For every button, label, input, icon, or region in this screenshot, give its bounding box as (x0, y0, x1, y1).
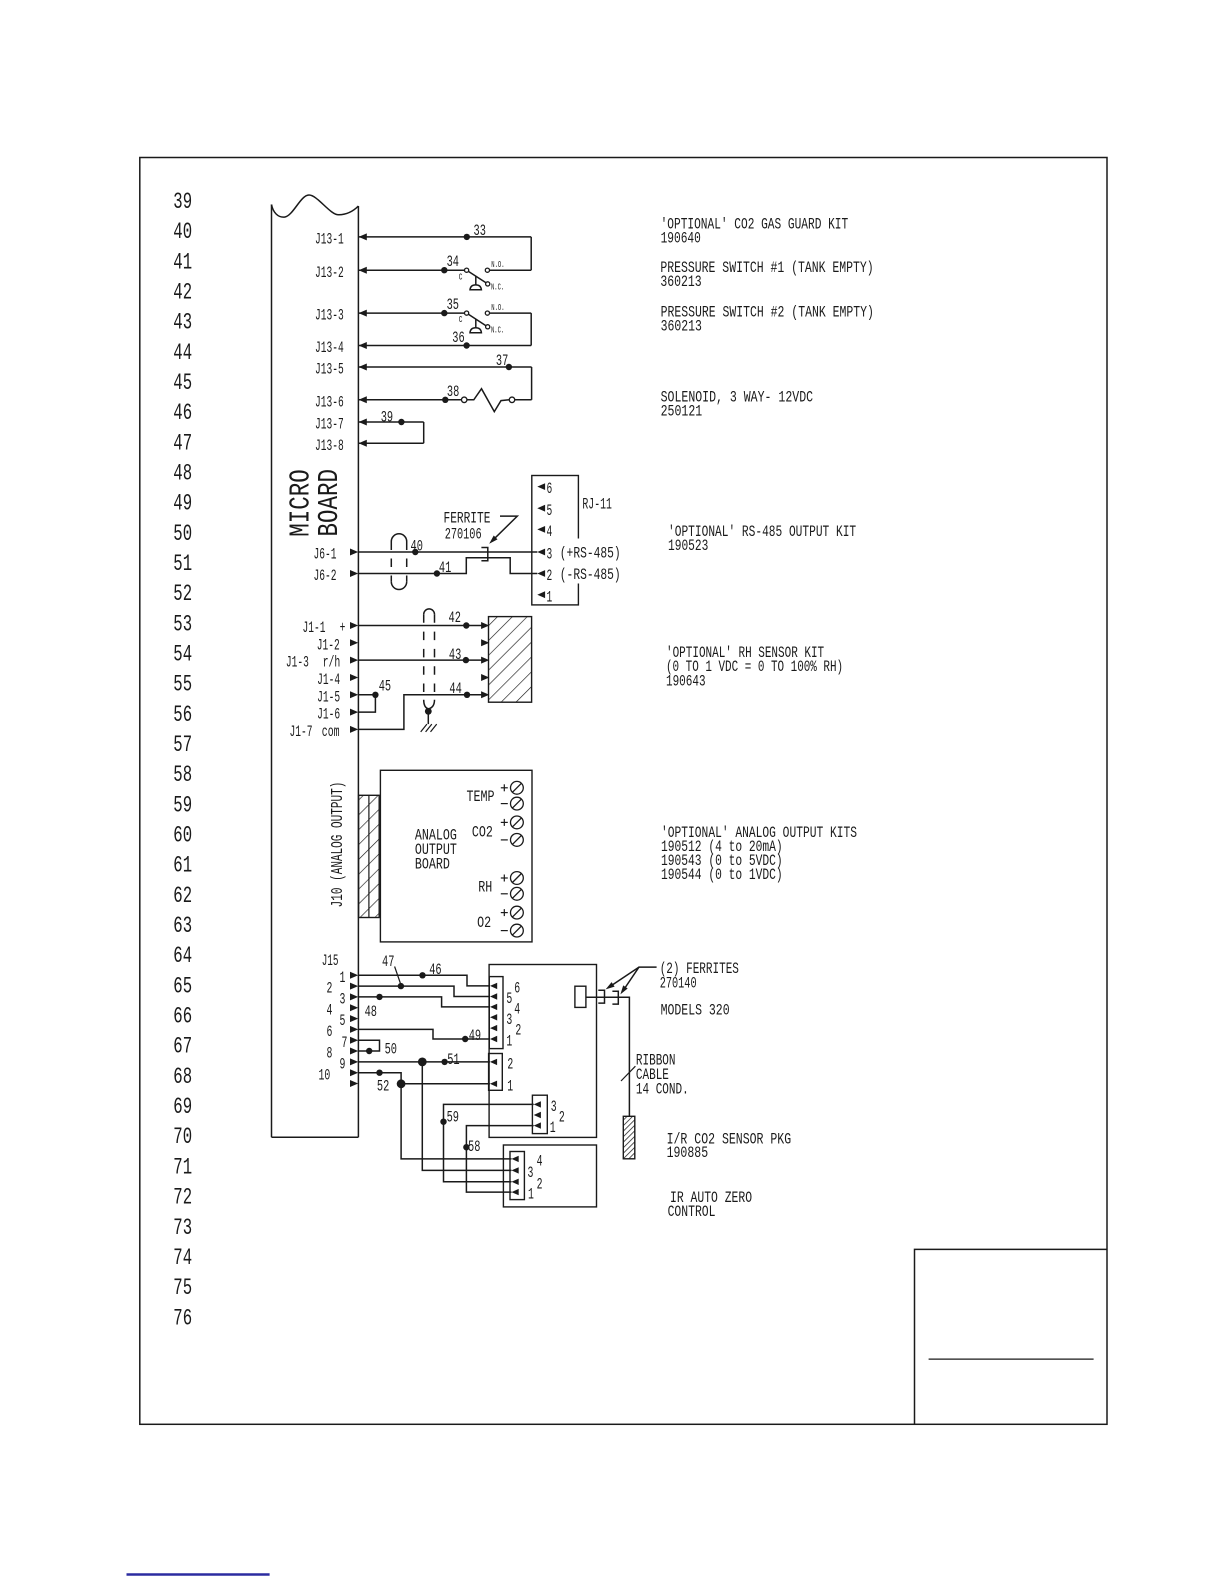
wire 35 junction dot (441, 310, 447, 316)
wire 43 J1-3 to RH sensor (358, 659, 481, 661)
label (-RS-485) with gap in box edge (558, 561, 623, 584)
svg-text:J13-1: J13-1 (315, 231, 344, 249)
auto zero 4-pin pin 3 arrowhead (512, 1167, 519, 1173)
screw terminal 7 (511, 906, 524, 919)
svg-text:2: 2 (515, 1022, 521, 1040)
pin J1-6 arrowhead (350, 709, 358, 716)
wire 36 junction dot (463, 342, 469, 348)
J6 twisted pair shield capsule (391, 534, 406, 542)
svg-text:76: 76 (173, 1305, 192, 1331)
svg-text:J1-6: J1-6 (317, 706, 340, 724)
pin J1-5 arrowhead (350, 691, 358, 698)
wire 48 junction dot (376, 994, 382, 1000)
svg-text:N.O.: N.O. (491, 259, 504, 270)
RH sensor hatched box (489, 617, 532, 703)
auto zero 4-pin pin 1 arrowhead (512, 1189, 519, 1195)
switch actuator (475, 276, 477, 285)
svg-text:1: 1 (528, 1186, 534, 1204)
wire 59 sensor 3-pin pin3 to auto zero pin 2 (444, 1104, 534, 1181)
svg-text:J1-4: J1-4 (317, 671, 340, 689)
ferrite leader arrowhead (489, 535, 497, 543)
pin J1-1 arrowhead (350, 622, 358, 629)
svg-text:C: C (459, 314, 463, 325)
svg-text:J6-2: J6-2 (314, 567, 337, 585)
wire 37 junction dot (506, 364, 512, 370)
switch actuator dome (470, 328, 481, 333)
svg-text:47: 47 (382, 953, 394, 971)
svg-text:70: 70 (173, 1124, 192, 1150)
sensor 3-pin connector box (532, 1095, 547, 1133)
svg-text:68: 68 (173, 1064, 192, 1090)
sensor 2-pin connector box (489, 1054, 503, 1091)
svg-text:35: 35 (447, 296, 459, 314)
wire 49 J15-6 to sensor pin 1 (358, 1029, 490, 1039)
wire 46 junction dot (419, 972, 425, 978)
svg-text:270140: 270140 (660, 975, 697, 993)
sensor 3-pin pin 1 arrowhead (534, 1122, 541, 1128)
svg-text:3: 3 (551, 1098, 557, 1116)
svg-text:74: 74 (173, 1245, 192, 1271)
J1-2 arrowhead into sensor (481, 639, 489, 646)
svg-text:J1-2: J1-2 (317, 636, 340, 654)
svg-text:33: 33 (474, 222, 486, 240)
svg-text:(-RS-485): (-RS-485) (560, 566, 621, 584)
svg-text:1: 1 (340, 969, 346, 987)
svg-text:RJ-11: RJ-11 (582, 496, 612, 514)
pin J13-5 arrowhead (359, 364, 367, 371)
svg-text:TEMP: TEMP (467, 788, 495, 806)
svg-text:J1-7: J1-7 (290, 723, 313, 741)
svg-text:1: 1 (507, 1077, 513, 1095)
wire 50 junction dot (366, 1048, 372, 1054)
sensor 6-pin connector pin 6 arrowhead (490, 983, 497, 989)
svg-text:2: 2 (537, 1175, 543, 1193)
svg-text:42: 42 (449, 609, 461, 627)
svg-text:7: 7 (342, 1034, 348, 1052)
svg-text:270106: 270106 (445, 526, 482, 544)
wire 41 J6-2 to RJ-11 pin 2 (358, 558, 537, 574)
screw terminal 5 (511, 872, 524, 885)
page border frame (140, 158, 1107, 1425)
auto zero 4-pin pin 4 arrowhead (512, 1156, 519, 1162)
svg-text:48: 48 (173, 461, 192, 487)
J1-4 arrowhead into sensor (481, 674, 489, 681)
svg-text:C: C (459, 271, 463, 282)
svg-text:4: 4 (537, 1153, 543, 1171)
auto zero 4-pin connector box (510, 1152, 524, 1200)
svg-text:45: 45 (173, 370, 192, 396)
screw terminal 8 (511, 924, 524, 937)
pin J6-2 arrowhead (350, 570, 358, 577)
svg-text:2: 2 (559, 1109, 565, 1127)
svg-text:6: 6 (327, 1023, 333, 1041)
svg-text:J1-1: J1-1 (303, 619, 326, 637)
RJ-11 pin 2 arrowhead (537, 570, 545, 577)
pin J13-3 arrowhead (359, 310, 367, 317)
switch common terminal (465, 268, 469, 272)
svg-text:J13-7: J13-7 (315, 416, 344, 434)
svg-text:3: 3 (547, 546, 553, 564)
svg-text:38: 38 (447, 383, 459, 401)
svg-text:250121: 250121 (661, 403, 703, 421)
pin J1-7 arrowhead (350, 726, 358, 733)
svg-text:47: 47 (173, 430, 192, 456)
svg-text:9: 9 (340, 1056, 346, 1074)
pin J15-1 arrowhead (350, 972, 358, 979)
svg-text:48: 48 (365, 1003, 377, 1021)
wire 38 J13-6 to solenoid coil (358, 399, 461, 401)
svg-text:4: 4 (514, 1001, 520, 1019)
svg-text:J13-6: J13-6 (315, 393, 344, 411)
svg-text:BOARD: BOARD (313, 469, 346, 537)
switch blade (468, 314, 486, 325)
svg-text:O2: O2 (477, 914, 491, 932)
svg-text:3: 3 (506, 1011, 512, 1029)
svg-text:73: 73 (173, 1215, 192, 1241)
svg-text:5: 5 (340, 1012, 346, 1030)
J10 strip center line (368, 795, 370, 917)
pin J13-7 arrowhead (359, 419, 367, 426)
svg-text:2: 2 (547, 567, 553, 585)
pin J15-5 arrowhead (350, 1015, 358, 1022)
screw terminal 6 sign (501, 893, 508, 895)
svg-text:54: 54 (173, 642, 192, 668)
wire 37 J13-5 to solenoid (358, 366, 531, 368)
wire 39 J13-7 to J13-8 jumper (358, 421, 423, 423)
svg-text:46: 46 (429, 961, 441, 979)
sensor 6-pin connector pin 2 arrowhead (490, 1025, 497, 1031)
analog output board box (380, 770, 532, 942)
sensor 6-pin connector pin 4 arrowhead (490, 1004, 497, 1010)
svg-text:10: 10 (319, 1066, 331, 1084)
svg-text:N.C.: N.C. (491, 282, 504, 293)
svg-text:61: 61 (173, 853, 192, 879)
pin J1-3 arrowhead (350, 657, 358, 664)
wire 47 J15-2 to sensor pin 5 (358, 986, 490, 996)
wire 50 J15-7 to J15-8 jumper (358, 1040, 379, 1051)
wire 52 branch junction dot (397, 1079, 406, 1088)
svg-text:57: 57 (173, 732, 192, 758)
wire 51 branch junction dot (418, 1058, 427, 1067)
RJ-11 pin 4 arrowhead (537, 526, 545, 533)
svg-text:BOARD: BOARD (415, 856, 450, 874)
svg-text:55: 55 (173, 672, 192, 698)
ferrites leader arrowhead 2 (620, 985, 627, 994)
pin J6-1 arrowhead (350, 549, 358, 556)
svg-text:66: 66 (173, 1004, 192, 1030)
svg-text:44: 44 (173, 340, 192, 366)
wire 52 marker dot (376, 1070, 382, 1076)
svg-text:41: 41 (173, 249, 192, 275)
micro board outline (271, 205, 273, 1138)
pin J15-3 arrowhead (350, 993, 358, 1000)
svg-text:50: 50 (385, 1041, 397, 1059)
wire 34 junction dot (441, 267, 447, 273)
wire 48 J15-3 to sensor pin 4 (358, 997, 490, 1007)
svg-text:J1-3: J1-3 (286, 654, 309, 672)
svg-text:6: 6 (547, 480, 553, 498)
svg-text:+: + (340, 619, 346, 637)
svg-text:r/h: r/h (323, 654, 341, 672)
svg-text:51: 51 (447, 1051, 459, 1069)
svg-text:J13-8: J13-8 (315, 437, 344, 455)
svg-text:4: 4 (327, 1001, 333, 1019)
wire 58 sensor 3-pin pin1 to auto zero pin 1 (466, 1126, 533, 1193)
wire 44 arrowhead into sensor (481, 691, 489, 698)
wire 40 junction dot (412, 549, 418, 555)
screw terminal 6 (511, 887, 524, 900)
wire 35 J13-3 to switch2 common (358, 312, 464, 314)
svg-text:50: 50 (173, 521, 192, 547)
svg-text:44: 44 (449, 680, 461, 698)
pin J15-8 arrowhead (350, 1048, 358, 1055)
pin J13-8 arrowhead (359, 440, 367, 447)
pin J1-4 arrowhead (350, 674, 358, 681)
wire 33 junction dot (464, 234, 470, 240)
wire 47 junction dot (398, 983, 404, 989)
svg-text:49: 49 (469, 1027, 481, 1045)
svg-text:4: 4 (547, 523, 553, 541)
svg-text:6: 6 (514, 980, 520, 998)
pin J15-2 arrowhead (350, 983, 358, 990)
svg-text:62: 62 (173, 883, 192, 909)
J10 hatched connector strip (359, 795, 380, 917)
svg-text:J10 (ANALOG OUTPUT): J10 (ANALOG OUTPUT) (328, 782, 347, 908)
wire solenoid to vertical (515, 399, 532, 401)
auto zero 4-pin pin 2 arrowhead (512, 1179, 519, 1185)
RJ-11 pin 5 arrowhead (537, 505, 545, 512)
pin J15-10 arrowhead (350, 1069, 358, 1076)
wire 51 J15-9 to sensor 2-pin connector pin 2 (358, 1061, 490, 1063)
wire 38 junction dot (442, 397, 448, 403)
svg-text:N.C.: N.C. (491, 325, 504, 336)
wire 44 J1-7 to RH sensor (358, 695, 481, 730)
wire 42 junction dot (463, 622, 469, 628)
wire 44 junction dot (464, 692, 470, 698)
wire 47 leader line (395, 967, 401, 984)
sensor 2-pin pin 2 arrowhead (490, 1059, 497, 1065)
svg-text:69: 69 (173, 1094, 192, 1120)
svg-text:J1-5: J1-5 (317, 688, 340, 706)
wire switch2 N.O. to vertical (490, 312, 532, 314)
svg-text:190544 (0 to 1VDC): 190544 (0 to 1VDC) (661, 866, 783, 884)
ferrites leader arrowhead 1 (606, 982, 615, 989)
svg-text:1: 1 (547, 588, 553, 606)
svg-text:190885: 190885 (667, 1144, 709, 1162)
svg-text:64: 64 (173, 943, 192, 969)
svg-text:190523: 190523 (668, 537, 708, 555)
sensor 6-pin connector pin 1 arrowhead (490, 1036, 497, 1042)
svg-text:3: 3 (528, 1164, 534, 1182)
wire 45 J1-5 to J1-6 jumper (358, 695, 375, 712)
wire 36 J13-4 (358, 345, 531, 347)
solenoid left terminal (461, 397, 467, 403)
svg-text:2: 2 (507, 1056, 513, 1074)
svg-text:52: 52 (377, 1078, 389, 1096)
svg-text:52: 52 (173, 581, 192, 607)
ground stem (427, 714, 429, 724)
ribbon cable leader line (621, 1066, 635, 1081)
wire 42 J1-1 to RH sensor (358, 625, 481, 627)
svg-text:41: 41 (439, 559, 451, 577)
ferrites leader lines (609, 967, 657, 987)
switch N.O. terminal (485, 268, 489, 272)
svg-text:43: 43 (173, 310, 192, 336)
svg-text:5: 5 (547, 502, 553, 520)
wire 39 junction dot (398, 419, 404, 425)
pin J15 extra arrowhead (350, 1080, 358, 1087)
svg-text:J13-5: J13-5 (315, 361, 344, 379)
svg-text:71: 71 (173, 1154, 192, 1180)
switch common terminal (465, 311, 469, 315)
RJ-11 pin 6 arrowhead (537, 483, 545, 490)
switch N.O. terminal (485, 311, 489, 315)
switch actuator (475, 319, 477, 328)
RJ-11 pin 3 arrowhead (537, 549, 545, 556)
screw terminal 5 sign (501, 877, 508, 879)
svg-text:59: 59 (173, 792, 192, 818)
title block signature line (929, 1358, 1094, 1360)
pin J15-6 arrowhead (350, 1026, 358, 1033)
switch N.C. terminal (486, 282, 490, 286)
RJ-11 pin 1 arrowhead (537, 591, 545, 598)
svg-text:39: 39 (381, 408, 393, 426)
pin J13-2 arrowhead (359, 267, 367, 274)
IR auto zero control box (503, 1145, 596, 1207)
wire 40 J6-1 to RJ-11 pin 3 (358, 551, 537, 553)
svg-text:39: 39 (173, 189, 192, 215)
svg-text:34: 34 (447, 253, 459, 271)
svg-text:42: 42 (173, 279, 192, 305)
wire 52 J15-10 step down (358, 1073, 490, 1084)
ferrite bead on RS-485 pair (481, 548, 487, 561)
svg-text:51: 51 (173, 551, 192, 577)
svg-text:2: 2 (327, 980, 333, 998)
svg-text:58: 58 (173, 762, 192, 788)
svg-text:190640: 190640 (661, 230, 701, 248)
IR CO2 sensor package box (489, 965, 596, 1138)
wire 43 junction dot (463, 657, 469, 663)
svg-text:63: 63 (173, 913, 192, 939)
wire 45 junction dot (372, 692, 378, 698)
wire 58 junction dot (463, 1144, 469, 1150)
svg-text:J13-2: J13-2 (315, 264, 344, 282)
wire 43 arrowhead into sensor (481, 657, 489, 664)
pin J13-6 arrowhead (359, 396, 367, 403)
svg-text:com: com (322, 723, 340, 741)
pin J15-9 arrowhead (350, 1058, 358, 1065)
ferrite bracket 2 (612, 991, 618, 1004)
label (+RS-485) with gap in box edge (558, 539, 623, 561)
micro board break wave top (272, 195, 359, 217)
screw terminal 1 (511, 781, 524, 794)
svg-text:3: 3 (340, 991, 346, 1009)
wire junction51 branch down to auto zero pin 3 (422, 1062, 511, 1171)
svg-text:J13-4: J13-4 (315, 339, 344, 357)
solenoid right terminal (509, 397, 515, 403)
screw terminal 4 (511, 834, 524, 847)
ground symbol rake (421, 724, 427, 732)
solenoid coil zigzag (467, 389, 509, 412)
blue footer line (127, 1573, 270, 1575)
switch N.C. terminal (486, 325, 490, 329)
ribbon cable connector hatched (623, 1116, 635, 1159)
svg-text:37: 37 (496, 352, 508, 370)
screw terminal 8 sign (501, 930, 508, 932)
svg-text:40: 40 (173, 219, 192, 245)
svg-text:360213: 360213 (660, 273, 701, 291)
J1 shield capsule dashed (424, 609, 435, 614)
svg-text:CONTROL: CONTROL (668, 1203, 716, 1221)
svg-text:65: 65 (173, 973, 192, 999)
svg-text:J6-1: J6-1 (314, 546, 337, 564)
pin J15-7 arrowhead (350, 1037, 358, 1044)
svg-text:67: 67 (173, 1034, 192, 1060)
svg-text:60: 60 (173, 823, 192, 849)
svg-text:72: 72 (173, 1185, 192, 1211)
svg-text:360213: 360213 (661, 318, 702, 336)
svg-text:(+RS-485): (+RS-485) (560, 544, 621, 562)
svg-text:46: 46 (173, 400, 192, 426)
pin J13-1 arrowhead (359, 233, 367, 240)
screw terminal 2 sign (501, 803, 508, 805)
screw terminal 3 sign (501, 821, 508, 823)
wire 34 J13-2 to switch1 common (358, 269, 464, 271)
screw terminal 1 sign (501, 787, 508, 789)
svg-text:40: 40 (411, 538, 423, 556)
svg-text:CO2: CO2 (472, 824, 493, 842)
wire 46 J15-1 to sensor pin 6 (358, 975, 490, 986)
wire 49 junction dot (462, 1036, 468, 1042)
svg-text:RH: RH (478, 878, 492, 896)
sensor 3-pin pin 3 arrowhead (534, 1101, 541, 1107)
svg-text:45: 45 (379, 678, 391, 696)
svg-text:36: 36 (452, 329, 464, 347)
svg-text:49: 49 (173, 491, 192, 517)
sensor 3-pin pin 2 arrowhead (534, 1112, 541, 1118)
svg-text:59: 59 (447, 1109, 459, 1127)
ferrite bracket 1 (598, 990, 604, 1003)
svg-text:14 COND.: 14 COND. (636, 1081, 689, 1099)
pin J1-2 arrowhead (350, 639, 358, 646)
sensor 6-pin connector pin 5 arrowhead (490, 993, 497, 999)
svg-text:53: 53 (173, 611, 192, 637)
sensor 6-pin connector box (489, 977, 503, 1049)
svg-text:190643: 190643 (666, 672, 706, 690)
svg-text:1: 1 (506, 1033, 512, 1051)
svg-text:MODELS 320: MODELS 320 (661, 1002, 730, 1020)
shield ground junction dot (425, 708, 432, 715)
wire 59 junction dot (440, 1119, 446, 1125)
ribbon cable wire (586, 997, 630, 1116)
sensor 2-pin pin 1 arrowhead (490, 1081, 497, 1087)
screw terminal 7 sign (501, 912, 508, 914)
sensor right connector rectangle (575, 986, 586, 1007)
svg-text:43: 43 (449, 646, 461, 664)
wire junction52 branch down to auto zero pin 4 (401, 1084, 511, 1159)
wire 42 arrowhead into sensor (481, 622, 489, 629)
svg-text:J15: J15 (322, 952, 339, 970)
svg-text:1: 1 (550, 1119, 556, 1137)
screw terminal 2 (511, 797, 524, 810)
wire switch1 N.O. to vertical (490, 269, 532, 271)
wire 41 junction dot (434, 570, 440, 576)
svg-text:56: 56 (173, 702, 192, 728)
wire 51 junction dot (441, 1059, 447, 1065)
svg-text:58: 58 (468, 1138, 480, 1156)
title block (915, 1249, 1108, 1424)
sensor 6-pin connector pin 3 arrowhead (490, 1014, 497, 1020)
